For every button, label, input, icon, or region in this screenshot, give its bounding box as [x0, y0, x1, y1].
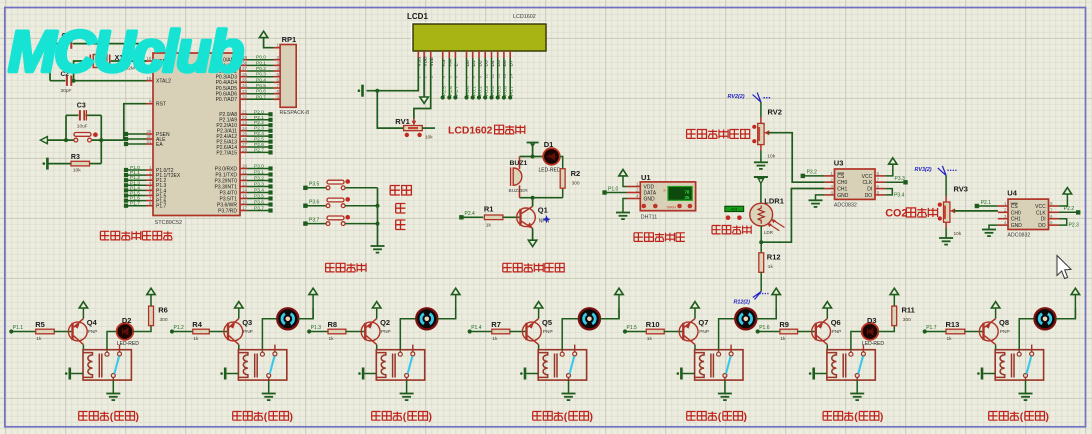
svg-text:1k: 1k — [193, 336, 199, 342]
terminal bar relay coil — [683, 373, 695, 375]
svg-text:P3.1: P3.1 — [254, 170, 264, 176]
svg-text:P2.5: P2.5 — [254, 137, 264, 143]
svg-text:P2.7: P2.7 — [454, 86, 460, 96]
ground relay common — [268, 378, 270, 381]
terminal bar R3 — [46, 158, 49, 170]
svg-text:D3: D3 — [484, 60, 490, 66]
wire LCD D7 — [509, 58, 511, 98]
svg-text:CLK: CLK — [1036, 210, 1046, 216]
ground relay common — [568, 378, 570, 381]
resistor R8 — [328, 329, 346, 334]
svg-text:6: 6 — [877, 184, 880, 189]
LCD pin stubs — [417, 51, 419, 58]
LED D1 — [543, 148, 560, 165]
svg-text:5: 5 — [877, 190, 880, 195]
svg-text:C3: C3 — [77, 103, 86, 110]
svg-text:RV1: RV1 — [395, 117, 409, 126]
node P1.2 — [170, 329, 174, 333]
svg-text:32: 32 — [242, 95, 248, 100]
svg-text:300: 300 — [903, 317, 911, 323]
svg-text:34: 34 — [242, 83, 248, 88]
net label P1.0 — [602, 190, 606, 194]
svg-text:P1.5: P1.5 — [130, 191, 140, 197]
wire left bus — [49, 44, 51, 81]
wire probe to RV3 — [945, 175, 947, 196]
svg-text:RV2: RV2 — [768, 108, 782, 117]
svg-text:4: 4 — [636, 194, 639, 199]
svg-text:1: 1 — [1004, 201, 1007, 206]
ground U4 — [989, 225, 998, 229]
svg-text:3: 3 — [276, 61, 279, 66]
wire to XTAL1 — [143, 44, 146, 61]
MCU right pin stubs and names — [240, 59, 247, 61]
svg-text:5: 5 — [1050, 220, 1053, 225]
svg-text:P2.3: P2.3 — [254, 126, 264, 132]
wire LDR bottom junction — [760, 226, 762, 255]
wire relay to motor — [1019, 319, 1034, 350]
wire relay to motor — [262, 319, 277, 350]
svg-text:P3.5: P3.5 — [309, 182, 320, 188]
svg-text:RST: RST — [156, 102, 166, 108]
svg-text:U3: U3 — [834, 159, 844, 168]
LED D2 — [117, 323, 134, 340]
wire LCD VSS to left — [367, 58, 419, 91]
resistor R3 — [47, 163, 72, 165]
wire LCD E — [454, 58, 456, 98]
svg-text:P2.5: P2.5 — [441, 86, 447, 96]
resistor R6 — [149, 306, 154, 326]
resistor R11 — [892, 306, 897, 326]
svg-text:(: ( — [1020, 412, 1024, 423]
svg-text:D0: D0 — [465, 60, 471, 66]
svg-text:2: 2 — [636, 188, 639, 193]
svg-text:P2.6: P2.6 — [448, 86, 454, 96]
svg-text:DO: DO — [865, 193, 873, 199]
potentiometer RV1 — [404, 126, 423, 131]
node P1.3 — [307, 329, 311, 333]
wire VEE to RV1 wiper — [414, 58, 431, 119]
svg-text:R11: R11 — [902, 306, 915, 315]
RV3 wiper — [950, 208, 955, 213]
svg-text:R2: R2 — [571, 169, 581, 178]
svg-text:12: 12 — [496, 73, 501, 78]
wire C1 row — [50, 43, 143, 45]
wire LCD RW — [448, 58, 450, 98]
transistor Q2 PNP — [361, 322, 380, 341]
wire Q2 emitter to power — [376, 308, 378, 318]
svg-text:GND: GND — [837, 193, 849, 199]
wire buzzer top — [520, 156, 533, 158]
wire LCD D6 — [503, 58, 505, 98]
svg-text:P0.4: P0.4 — [256, 77, 266, 83]
label relay 2 — [233, 412, 242, 421]
svg-text:Q6: Q6 — [831, 318, 841, 327]
mouse cursor — [1057, 256, 1071, 279]
svg-text:11: 11 — [490, 73, 495, 78]
svg-text:RESPACK-8: RESPACK-8 — [280, 110, 310, 116]
relay RL4 — [538, 350, 586, 380]
wire LCD D4 — [491, 58, 493, 98]
svg-text:1k: 1k — [780, 336, 786, 342]
wire R9 to Q6 base — [798, 331, 815, 333]
wire reset row — [47, 139, 75, 141]
button P3.6 — [303, 204, 307, 208]
wire Q1 collector — [532, 198, 534, 207]
svg-text:13: 13 — [242, 182, 248, 187]
sensor U1 DHT11 — [640, 182, 695, 211]
svg-text:78: 78 — [684, 189, 690, 194]
motor M3 — [416, 308, 437, 329]
transistor Q7 PNP — [679, 322, 698, 341]
svg-text:CS: CS — [837, 174, 845, 180]
svg-text:DO: DO — [1038, 223, 1046, 229]
resistor R4 — [193, 329, 210, 334]
wire P1.1 to R5 — [11, 331, 35, 333]
svg-text:R7: R7 — [491, 320, 501, 329]
wire RV3 wiper to U4 CH0 — [954, 210, 998, 212]
svg-text:1k: 1k — [947, 336, 953, 342]
label relay 5 — [687, 412, 696, 421]
wire P2.1 to CS — [979, 205, 998, 207]
buzzer BUZ1 — [513, 168, 522, 185]
svg-text:15: 15 — [242, 194, 248, 199]
svg-text:): ) — [290, 412, 293, 423]
svg-text:28: 28 — [242, 148, 248, 153]
svg-text:P0.3: P0.3 — [256, 72, 266, 78]
wire motor to power — [1056, 308, 1076, 319]
svg-text:P2.6: P2.6 — [254, 142, 264, 148]
svg-text:CH0: CH0 — [837, 180, 847, 186]
svg-text:P0.7: P0.7 — [509, 86, 515, 96]
wire relay to LED — [107, 332, 117, 350]
ground keys — [371, 245, 385, 247]
wire relay to motor — [400, 319, 416, 350]
svg-text:RW: RW — [448, 58, 454, 66]
svg-text:D6: D6 — [502, 60, 508, 66]
svg-text:P3.3: P3.3 — [895, 176, 906, 182]
terminal bar relay coil — [983, 373, 995, 375]
wire Q1 emitter to terminal — [532, 228, 534, 240]
wire probe to RV2 — [760, 102, 762, 117]
svg-text:P3.3: P3.3 — [254, 182, 264, 188]
svg-text:VCC: VCC — [1035, 204, 1046, 210]
svg-text:STC89C52: STC89C52 — [155, 220, 183, 226]
svg-text:): ) — [136, 412, 139, 423]
svg-text:P1.4: P1.4 — [130, 185, 140, 191]
svg-text:14: 14 — [509, 73, 514, 78]
svg-text:P0.2: P0.2 — [256, 66, 266, 72]
svg-text:10k: 10k — [954, 231, 962, 237]
wire Q8 collector to relay — [995, 345, 997, 350]
svg-text:PNP: PNP — [243, 329, 253, 335]
wire DI DO loop P2.3 — [1059, 219, 1067, 225]
resistor R10 — [646, 329, 664, 334]
resistor R2 — [560, 157, 563, 170]
wire C3 right leg — [100, 115, 102, 163]
svg-text:R12(2): R12(2) — [734, 300, 751, 306]
node P1.5 — [623, 329, 627, 333]
wire alarm bottom row — [520, 197, 563, 199]
crystal X1 — [74, 61, 90, 81]
wire Q4 emitter to power — [82, 308, 84, 318]
svg-text:16: 16 — [242, 200, 248, 205]
svg-text:P2.1: P2.1 — [981, 200, 992, 206]
svg-text:%RH: %RH — [667, 204, 676, 209]
svg-text:P1.7: P1.7 — [130, 201, 140, 207]
svg-text:21: 21 — [242, 110, 248, 115]
svg-text:P1.5: P1.5 — [627, 325, 638, 331]
button P3.5 — [303, 186, 307, 190]
wire Q7 emitter to power — [694, 308, 696, 318]
svg-text:D3: D3 — [867, 316, 877, 325]
motor M5 — [735, 308, 756, 329]
svg-text:4: 4 — [276, 66, 279, 71]
svg-text:4: 4 — [1004, 220, 1007, 225]
svg-text:P0.1: P0.1 — [256, 60, 266, 66]
svg-text:P0.6: P0.6 — [256, 89, 266, 95]
svg-text:D2: D2 — [477, 60, 483, 66]
svg-text:RS: RS — [441, 60, 447, 67]
svg-text:RP1: RP1 — [282, 35, 297, 44]
svg-text:P2.0: P2.0 — [254, 109, 264, 115]
wire LDR to U3 CH1 — [761, 189, 824, 243]
node VSS/RV1 — [375, 89, 379, 93]
potentiometer RV2 — [758, 123, 764, 144]
svg-text:P1.4: P1.4 — [471, 325, 482, 331]
relay switch blade — [114, 356, 119, 373]
PSEN ALE EA terminal squares — [128, 133, 146, 135]
svg-text:BUZ1: BUZ1 — [510, 160, 528, 167]
svg-text:PNP: PNP — [832, 329, 842, 335]
svg-text:P2.7: P2.7 — [254, 147, 264, 153]
wire Q5 collector to relay — [538, 345, 540, 350]
svg-text:P3.4: P3.4 — [894, 193, 905, 199]
svg-text:10k: 10k — [73, 168, 81, 174]
svg-text:P1.3: P1.3 — [130, 180, 140, 186]
transistor Q6 PNP — [812, 322, 831, 341]
transistor Q8 PNP — [979, 322, 998, 341]
svg-text:10: 10 — [484, 73, 489, 78]
ground relay common — [1025, 378, 1027, 381]
terminal bar relay coil — [526, 373, 538, 375]
svg-text:25: 25 — [242, 131, 248, 136]
svg-text:P1.0: P1.0 — [130, 165, 140, 171]
svg-text:D1: D1 — [544, 140, 554, 149]
svg-text:E: E — [454, 63, 460, 66]
svg-text:8: 8 — [149, 201, 152, 206]
svg-text:P0.6: P0.6 — [503, 86, 509, 96]
ADC U4 body — [1008, 199, 1049, 229]
svg-text:10uF: 10uF — [77, 124, 88, 130]
motor M4 — [579, 308, 600, 329]
svg-text:D2: D2 — [122, 316, 132, 325]
svg-text:30pF: 30pF — [61, 88, 72, 94]
svg-text:(: ( — [854, 412, 858, 423]
svg-text:R8: R8 — [328, 320, 338, 329]
svg-text:P1.6: P1.6 — [759, 325, 770, 331]
svg-text:P1.7: P1.7 — [926, 325, 937, 331]
wire LCD D2 — [478, 58, 480, 98]
svg-text:GND: GND — [1011, 223, 1023, 229]
ground RV3 — [945, 222, 947, 228]
wire R10 to Q7 base — [664, 331, 682, 333]
svg-text:10k: 10k — [767, 154, 775, 160]
svg-text:PNP: PNP — [543, 329, 553, 335]
wire R5 to Q4 base — [54, 331, 71, 333]
capacitor C3 — [79, 109, 86, 121]
svg-text:P0.3: P0.3 — [484, 86, 490, 96]
svg-text:(: ( — [403, 412, 407, 423]
svg-text:GND: GND — [644, 197, 656, 203]
wire Q7 collector to relay — [694, 345, 696, 350]
svg-text:D4: D4 — [490, 60, 496, 66]
svg-text:CLK: CLK — [862, 180, 872, 186]
svg-text:P0.2: P0.2 — [478, 86, 484, 96]
relay RL3 — [376, 350, 424, 380]
wire Q8 emitter to power — [995, 308, 997, 318]
wire R7 to Q5 base — [510, 331, 526, 333]
svg-text:8: 8 — [877, 171, 880, 176]
svg-text:P0.0: P0.0 — [465, 86, 471, 96]
wire R8 to Q2 base — [346, 331, 364, 333]
svg-text:39: 39 — [242, 55, 248, 60]
resistor R13 — [946, 329, 965, 334]
svg-text:P2.1: P2.1 — [254, 115, 264, 121]
svg-text:R6: R6 — [158, 306, 168, 315]
wire R6 to power — [150, 295, 152, 306]
svg-text:P1.6: P1.6 — [130, 196, 140, 202]
wire Q5 emitter to power — [538, 308, 540, 318]
svg-text:P0.5: P0.5 — [496, 86, 502, 96]
svg-text:1k: 1k — [647, 336, 653, 342]
ADC U3 body — [835, 169, 876, 199]
wire P1.7 to R13 — [925, 331, 946, 333]
svg-text:R1: R1 — [484, 205, 494, 214]
svg-text:8: 8 — [276, 89, 279, 94]
svg-text:P3.2: P3.2 — [807, 170, 818, 176]
svg-text:1k: 1k — [36, 336, 42, 342]
relay switch blade — [270, 356, 275, 373]
resistor R5 — [36, 329, 55, 334]
svg-text:D5: D5 — [496, 60, 502, 66]
svg-text:(: ( — [110, 412, 114, 423]
svg-text:33: 33 — [242, 89, 248, 94]
svg-text:7: 7 — [276, 83, 279, 88]
svg-text:PNP: PNP — [381, 329, 391, 335]
wire LCD RS — [442, 58, 444, 98]
svg-text:8: 8 — [1050, 201, 1053, 206]
svg-text:LDR: LDR — [764, 230, 774, 235]
svg-text:MCUclub: MCUclub — [8, 20, 243, 85]
wire RV2 wiper to U3 CH0 — [769, 133, 825, 183]
wire alarm top row — [532, 144, 534, 157]
svg-text:P3.7: P3.7 — [309, 217, 320, 223]
relay switch blade — [858, 356, 863, 373]
wire P1.6 to R9 — [758, 331, 780, 333]
power arrow U3 — [885, 164, 893, 176]
ground DHT11 — [623, 199, 627, 213]
power arrow RP1 — [264, 38, 274, 48]
svg-text:Q2: Q2 — [380, 318, 390, 327]
svg-text:7: 7 — [877, 177, 880, 182]
svg-text:300: 300 — [572, 181, 580, 187]
relay RL1 — [83, 350, 131, 380]
motor M2 — [277, 308, 298, 329]
svg-text:27: 27 — [242, 142, 248, 147]
net label P3.3 — [885, 181, 903, 183]
resistor R7 — [492, 329, 510, 334]
label relay 4 — [533, 412, 542, 421]
svg-text:LED-RED: LED-RED — [862, 341, 884, 347]
transistor Q4 PNP — [68, 322, 87, 341]
wire P1.2 to R4 — [172, 331, 193, 333]
wire P1.3 to R8 — [309, 331, 328, 333]
svg-text:PNP: PNP — [1000, 329, 1010, 335]
transistor Q3 PNP — [224, 322, 243, 341]
svg-text:RV3: RV3 — [954, 185, 968, 194]
svg-text:R13: R13 — [946, 320, 960, 329]
svg-text:): ) — [590, 412, 593, 423]
svg-text:474: 474 — [731, 208, 737, 212]
wire motor to power — [437, 308, 455, 319]
wire motor to power — [298, 308, 313, 319]
svg-text:14: 14 — [242, 188, 248, 193]
svg-text:BUZZER: BUZZER — [509, 188, 529, 194]
svg-text:R12: R12 — [767, 253, 781, 262]
svg-text:R4: R4 — [192, 320, 202, 329]
svg-text:26: 26 — [242, 137, 248, 142]
svg-text:1k: 1k — [329, 336, 335, 342]
svg-text:1k: 1k — [486, 223, 492, 229]
svg-text:P1.3: P1.3 — [311, 325, 322, 331]
svg-text:CH1: CH1 — [837, 187, 847, 193]
svg-text:1k: 1k — [492, 336, 498, 342]
svg-text:2: 2 — [1004, 208, 1007, 213]
wire LED to R11 — [878, 326, 894, 332]
wire LCD D1 — [472, 58, 474, 98]
svg-text:Q7: Q7 — [698, 318, 708, 327]
svg-text:ADC0832: ADC0832 — [834, 203, 857, 209]
svg-text:): ) — [744, 412, 747, 423]
svg-text:P0.7/AD7: P0.7/AD7 — [216, 97, 238, 103]
wire C3 left leg — [65, 115, 67, 140]
svg-text:35: 35 — [684, 195, 690, 200]
svg-text:): ) — [1046, 412, 1049, 423]
svg-text:Q5: Q5 — [542, 318, 552, 327]
svg-text:10: 10 — [242, 164, 248, 169]
svg-text:DI: DI — [1041, 217, 1046, 223]
svg-text:EA: EA — [156, 142, 163, 148]
wire R13 to Q8 base — [965, 331, 983, 333]
wire P1.5 to R10 — [625, 331, 646, 333]
wire P1.0 to DATA — [607, 192, 627, 194]
svg-text:Q1: Q1 — [538, 206, 548, 215]
svg-text:P3.2: P3.2 — [254, 176, 264, 182]
svg-text:P3.6: P3.6 — [309, 200, 320, 206]
svg-text:VCC: VCC — [862, 174, 873, 180]
net labels P1.0-P1.7 left — [128, 169, 146, 171]
svg-text:Q8: Q8 — [999, 318, 1009, 327]
svg-text:P0.4: P0.4 — [490, 86, 496, 96]
wire to RST pin — [124, 104, 146, 140]
svg-text:P0.0: P0.0 — [256, 55, 266, 61]
wire P2.4 to R1 — [464, 216, 484, 218]
svg-text:P3.6: P3.6 — [254, 200, 264, 206]
LDR1 photoresistor — [750, 203, 773, 226]
relay RL6 — [827, 350, 875, 380]
wire R11 to power — [893, 295, 895, 306]
svg-text:2: 2 — [276, 55, 279, 60]
